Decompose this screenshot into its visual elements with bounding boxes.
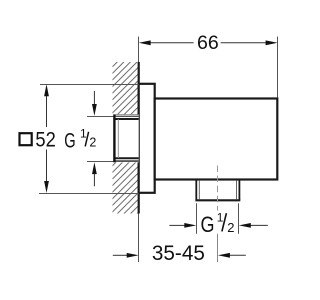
node outlet G 1/2 label [169,203,267,237]
svg-text:1: 1 [217,210,224,224]
svg-text:1: 1 [80,127,87,141]
node body [155,99,278,180]
svg-text:2: 2 [89,135,96,149]
svg-text:35-45: 35-45 [152,242,205,265]
node inlet thread [87,114,139,162]
node dim 35-45 [113,242,246,265]
wire [138,214,140,263]
svg-text:66: 66 [197,32,219,54]
node flange [139,84,155,193]
node outlet thread [195,180,240,201]
svg-text:2: 2 [227,220,234,235]
wire [138,37,140,63]
node dim 66 [139,32,278,98]
svg-text:G: G [201,212,215,237]
wall hatching [113,62,139,214]
node dim 52 [20,84,139,193]
svg-text:G: G [64,130,75,153]
wire [138,62,140,214]
node inlet G 1/2 label [64,91,97,186]
node centerline [217,166,219,234]
svg-text:52: 52 [35,128,55,151]
